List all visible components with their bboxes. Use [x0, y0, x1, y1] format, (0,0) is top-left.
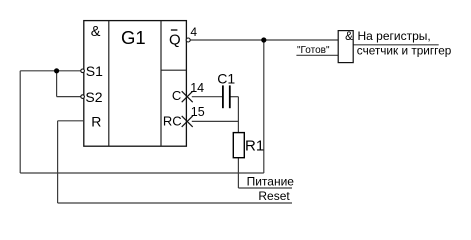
- svg-text:Q: Q: [169, 31, 181, 48]
- svg-text:C: C: [172, 88, 181, 103]
- svg-text:&: &: [91, 24, 101, 40]
- svg-text:RC: RC: [163, 113, 182, 128]
- svg-text:G1: G1: [121, 27, 146, 48]
- svg-text:На регистры,: На регистры,: [358, 29, 431, 43]
- svg-text:Питание: Питание: [247, 174, 295, 188]
- svg-text:счетчик и триггер: счетчик и триггер: [357, 43, 452, 57]
- svg-text:S1: S1: [86, 63, 103, 79]
- svg-text:C1: C1: [217, 70, 235, 86]
- svg-text:R: R: [91, 113, 101, 129]
- svg-text:&: &: [345, 31, 353, 43]
- svg-text:4: 4: [190, 25, 197, 39]
- svg-text:15: 15: [191, 105, 205, 119]
- svg-text:R1: R1: [245, 138, 264, 155]
- svg-text:Reset: Reset: [258, 189, 290, 203]
- svg-text:"Готов": "Готов": [297, 45, 330, 56]
- svg-text:S2: S2: [85, 89, 102, 105]
- svg-text:14: 14: [190, 81, 204, 95]
